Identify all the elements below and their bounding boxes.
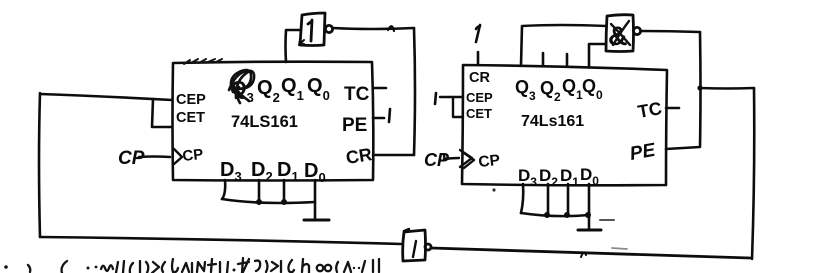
tick mark on G2 output wire <box>581 252 586 257</box>
wire: U2 D bus <box>521 213 589 216</box>
svg-text:CET: CET <box>466 106 492 121</box>
svg-text:CET: CET <box>176 110 205 126</box>
label U2 clock wedge <box>464 153 474 168</box>
wire: U2 Q3 pin up to AND input <box>521 25 606 65</box>
wire: G3 output to right <box>641 31 700 32</box>
tick mark on G1 output wire <box>388 26 394 31</box>
wire: U2 Q0 pin up to AND input <box>589 44 606 66</box>
constant 1 at U2 CEP/CET <box>435 93 436 104</box>
wire: U2 D2 pin down <box>547 184 550 215</box>
wire: U1 PE stub <box>373 117 384 120</box>
wire: riser down to U1 CR <box>414 28 415 155</box>
wire: U2 Q1 stub up <box>566 54 569 65</box>
svg-text:Q2: Q2 <box>257 77 280 105</box>
wire: G2 output long run to right riser <box>431 248 750 258</box>
wire: U1 D2 pin down <box>258 180 261 202</box>
wire: U2 D3 pin down <box>521 184 523 213</box>
wire: U2 Q2 stub up <box>542 53 545 65</box>
svg-text:D3: D3 <box>220 159 242 184</box>
constant 1 above U2 CR <box>476 25 480 42</box>
svg-text:TC: TC <box>344 84 370 105</box>
stray faint dash above long wire <box>612 248 627 249</box>
wire: U1 CEP stub from feedback node <box>40 94 172 100</box>
junction dot U2 D1 <box>564 212 570 218</box>
svg-text:Q1: Q1 <box>562 76 583 102</box>
wire: tie CEP to CET <box>152 99 172 127</box>
svg-text:D2: D2 <box>251 159 273 184</box>
svg-text:74LS161: 74LS161 <box>231 113 298 131</box>
wire: U2 D1 pin down <box>567 184 570 215</box>
svg-text:CEP: CEP <box>466 90 493 105</box>
wire: G1 output run to CR riser <box>333 28 414 29</box>
wire: U2 D0 pin down to ground <box>588 184 591 228</box>
AND gate G3 symbol (scribbled ampersand) <box>608 21 630 51</box>
pen scribble on U1 top edge <box>184 59 222 64</box>
junction dot U2 D2 <box>544 212 550 218</box>
wire: G3 output riser down to U2 PE <box>666 32 701 149</box>
svg-text:Q0: Q0 <box>307 75 330 103</box>
svg-text:Q2: Q2 <box>540 78 561 104</box>
wire: U2 TC stub <box>666 107 679 110</box>
wire: outer riser down to G2 output run <box>752 88 754 259</box>
inverter G1 (top) <box>300 13 333 46</box>
svg-text:CR: CR <box>344 144 373 168</box>
svg-text:Q3: Q3 <box>515 77 536 103</box>
svg-text:TC: TC <box>636 98 663 122</box>
wire: G1 input from U1 Q1 <box>286 30 302 62</box>
label U1 pin Q3 (scribbled over) <box>229 70 254 105</box>
svg-text:CP: CP <box>118 148 145 169</box>
annotation: cropped handwritten note along bottom edge <box>4 258 379 273</box>
ground GND2 side dash <box>600 219 614 221</box>
wire: U1 D bus <box>222 199 315 203</box>
wire: left feedback vertical <box>39 93 40 237</box>
wire: CP arrow into U1 <box>139 155 170 158</box>
arrowhead / clock wedge U2 <box>460 150 472 167</box>
wire: bottom feedback run to inverter G2 <box>40 237 401 244</box>
wire: constant into U2 CEP <box>440 96 463 98</box>
ground GND1 <box>304 219 329 222</box>
AND gate G3 <box>606 15 641 52</box>
IC U1 74LS161 body <box>173 62 374 181</box>
junction dot U1 D1 <box>281 199 287 205</box>
wire: tie U2 CEP to CET <box>453 97 463 117</box>
svg-text:CR: CR <box>469 70 490 86</box>
wire: branch from PE riser to outer riser <box>700 87 754 90</box>
inverter G2 (bottom) <box>403 229 431 261</box>
wire: U1 CR stub <box>373 154 414 157</box>
stray dot below U2 <box>492 188 495 191</box>
wire: U1 TC stub <box>373 87 386 90</box>
wire: CP arrow into U2 <box>444 156 459 160</box>
wire: U1 D3 pin down <box>222 180 225 199</box>
svg-text:CP: CP <box>182 146 205 165</box>
svg-text:PE: PE <box>628 140 658 165</box>
arrowhead at G1 input corner <box>299 40 304 45</box>
svg-text:CEP: CEP <box>176 92 206 108</box>
IC U2 74LS161 body <box>462 65 667 185</box>
svg-text:PE: PE <box>342 115 367 136</box>
wire: U1 D1 pin down <box>283 180 286 202</box>
svg-text:Q0: Q0 <box>582 76 603 102</box>
junction dot U2 D0 <box>585 212 591 218</box>
label U1 clock wedge <box>174 149 182 164</box>
constant 1 at U1 PE <box>389 109 390 122</box>
svg-text:CP: CP <box>478 152 501 171</box>
junction dot U1 D2 <box>256 199 262 205</box>
wire: U2 CR pin stub up <box>477 52 480 64</box>
wire: U1 D0 pin down to ground <box>314 180 317 219</box>
ground GND2 <box>578 229 601 232</box>
svg-text:Q1: Q1 <box>281 75 304 103</box>
junction node on PE riser <box>697 85 702 90</box>
svg-text:D1: D1 <box>277 159 299 184</box>
svg-text:74Ls161: 74Ls161 <box>521 113 584 130</box>
